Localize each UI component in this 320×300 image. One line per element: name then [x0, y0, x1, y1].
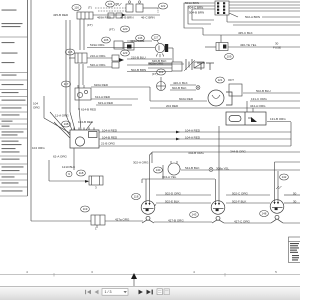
svg-text:117: 117 — [64, 82, 69, 86]
ref 117 — [61, 81, 70, 87]
svg-text:123: 123 — [123, 51, 128, 55]
svg-text:344-B ORG: 344-B ORG — [230, 149, 246, 153]
svg-text:112: 112 — [159, 70, 164, 74]
relay boxes small top — [126, 4, 133, 12]
ref 143 — [190, 212, 199, 218]
wire 435-C BLK — [203, 34, 300, 36]
wire 502-B BRN — [127, 71, 172, 73]
relay boxes mid — [114, 41, 123, 49]
svg-text:119: 119 — [83, 207, 88, 211]
ignition coil Q2 — [211, 201, 225, 223]
svg-text:62-A ORG: 62-A ORG — [53, 155, 68, 159]
svg-text:304-A YEL: 304-A YEL — [162, 175, 177, 179]
wire 344-B ORG — [152, 151, 300, 153]
svg-text:148: 148 — [262, 212, 267, 216]
svg-text:614-B RED: 614-B RED — [81, 108, 97, 112]
wire 104-A RED long — [99, 131, 291, 133]
svg-text:502-F BLK: 502-F BLK — [232, 199, 246, 203]
svg-text:427-C ORG: 427-C ORG — [234, 219, 251, 223]
wire 430 YEL — [228, 46, 300, 48]
ref 123 — [121, 50, 130, 56]
wire 614-A RED — [91, 98, 138, 100]
svg-text:30: 30 — [293, 199, 297, 203]
toolbar page textbox — [102, 289, 128, 296]
svg-text:109: 109 — [227, 55, 232, 59]
wire diagonals into key switch — [66, 115, 72, 130]
svg-text:344-A ORG: 344-A ORG — [250, 104, 266, 108]
wire 427a ORG — [105, 220, 143, 222]
svg-text:427-B ORG: 427-B ORG — [168, 218, 184, 222]
svg-text:502-E BLK: 502-E BLK — [165, 199, 180, 203]
blower motor B — [155, 43, 173, 62]
wire 210-B BLU — [127, 58, 172, 60]
ref 120 — [120, 26, 129, 32]
wire bus verticals upper left — [65, 20, 67, 115]
svg-text:21-B ORG: 21-B ORG — [101, 141, 116, 145]
legend text rows — [2, 10, 26, 192]
wire dashed accessory top — [95, 7, 126, 9]
svg-text:420-C BLK: 420-C BLK — [173, 81, 188, 85]
ref 118b — [77, 170, 86, 176]
svg-text:116: 116 — [74, 6, 79, 10]
svg-text:131-C ORG: 131-C ORG — [251, 97, 268, 101]
svg-text:104-A RED: 104-A RED — [185, 128, 201, 132]
toolbar first-page button — [85, 290, 91, 294]
svg-text:121: 121 — [218, 78, 223, 82]
wire 502-C ORG — [226, 194, 270, 196]
alternator exciter block 117 — [75, 85, 91, 100]
ref 148 — [260, 211, 269, 217]
svg-text:1210 BLK: 1210 BLK — [62, 165, 75, 169]
fusible link T1 — [197, 63, 205, 70]
wire 502-D ORG — [156, 194, 211, 196]
ref 140 — [154, 167, 163, 173]
svg-text:104-B RED: 104-B RED — [102, 135, 118, 139]
svg-text:118: 118 — [79, 171, 84, 175]
wire 502-E BLK — [156, 202, 211, 204]
svg-text:138: 138 — [64, 122, 69, 126]
svg-text:504-C BRN: 504-C BRN — [188, 6, 203, 10]
svg-text:502-D ORG: 502-D ORG — [165, 191, 182, 195]
svg-text:435-C BLK: 435-C BLK — [238, 31, 253, 35]
wire 426a ORG — [127, 40, 152, 42]
svg-text:501A BRN: 501A BRN — [185, 1, 199, 5]
svg-text:620A RED: 620A RED — [94, 83, 109, 87]
svg-text:602A RED: 602A RED — [179, 97, 194, 101]
wire 62-A ORG to breaker — [48, 160, 50, 181]
chassis mark top — [116, 3, 122, 6]
chassis mark near Q3 — [276, 186, 282, 189]
wire 302-A ORG drop — [162, 165, 164, 179]
svg-text:(FT): (FT) — [87, 23, 93, 27]
ref 116 — [72, 5, 81, 11]
svg-text:120: 120 — [123, 27, 128, 31]
svg-text:FUSE: FUSE — [273, 46, 281, 50]
ref 146 — [136, 35, 145, 41]
connector block 119 — [91, 215, 105, 228]
ref 127 — [152, 35, 161, 41]
svg-text:308a YEL: 308a YEL — [216, 166, 229, 170]
wire 620A RED — [91, 86, 150, 88]
wire coil1 feeds — [145, 179, 147, 203]
arrow splice — [119, 58, 124, 62]
svg-text:46-C BRN: 46-C BRN — [141, 15, 155, 19]
svg-text:131-B ORG: 131-B ORG — [270, 117, 286, 121]
wire battery leads — [148, 63, 184, 65]
wire coil3 feeds — [274, 162, 276, 202]
svg-text:502-B BRN: 502-B BRN — [131, 68, 146, 72]
svg-text:50: 50 — [293, 191, 297, 195]
ref 138 — [62, 121, 71, 127]
svg-text:(FT): (FT) — [109, 27, 115, 31]
svg-text:623-A RED: 623-A RED — [98, 101, 114, 105]
connector J1 pin block — [215, 1, 229, 15]
svg-text:520-A ORG: 520-A ORG — [90, 63, 106, 67]
ground G1 — [157, 77, 166, 91]
wire 544-B BLK / 308a YEL — [181, 169, 209, 171]
key switch — [70, 128, 99, 149]
harness nested loops to connector — [184, 3, 215, 28]
fusible link T2 — [206, 63, 214, 70]
wire 502-A BRN — [229, 13, 238, 17]
splice X 544 — [209, 168, 213, 172]
svg-text:104-A RED: 104-A RED — [185, 135, 201, 139]
arrow marks on long wires — [122, 14, 180, 141]
svg-text:143: 143 — [192, 213, 197, 217]
wire 427-B ORG — [154, 221, 212, 223]
svg-text:(T): (T) — [88, 6, 92, 10]
wire 427 feed from bus — [31, 220, 91, 222]
svg-text:ORG: ORG — [33, 105, 41, 109]
wire 519A ORG — [87, 47, 155, 49]
wire 427 right stub — [283, 222, 300, 224]
ref 122 — [158, 3, 167, 9]
wire 304-A YEL — [142, 178, 215, 180]
svg-text:430-YE YEL: 430-YE YEL — [240, 43, 257, 47]
wire 104-B RED long — [99, 138, 291, 140]
svg-text:504-B BRN: 504-B BRN — [189, 10, 204, 14]
svg-text:427a ORG: 427a ORG — [115, 217, 130, 221]
wire 435-B RED to fuse box E — [93, 14, 160, 16]
ref 118 — [132, 194, 141, 200]
svg-text:620-B BLK: 620-B BLK — [152, 59, 167, 63]
wire 502-F BLK — [226, 202, 270, 204]
legend column border — [0, 0, 28, 196]
relay K1 — [172, 62, 182, 71]
wire 420-C BLK — [170, 84, 196, 86]
wire coil2 feeds — [215, 179, 217, 203]
ref 115 — [65, 49, 74, 55]
wire 210-A ORG — [87, 57, 112, 59]
wire 602A RED — [150, 100, 207, 102]
wire 623-A RED — [96, 104, 132, 106]
wire 104 ORG long vertical bus — [30, 0, 32, 221]
svg-text:426a ORG: 426a ORG — [130, 39, 145, 43]
wire 602a ORG — [127, 64, 172, 66]
fuse block E top-left — [77, 12, 93, 19]
svg-text:OFT: OFT — [228, 78, 234, 82]
toolbar page icons — [157, 289, 169, 295]
splice X 602 — [196, 86, 200, 90]
svg-text:104-A RED: 104-A RED — [102, 128, 118, 132]
sender unit D-motor — [168, 161, 181, 175]
svg-text:344-B ORG: 344-B ORG — [188, 151, 204, 155]
ignition coil Q1 — [141, 201, 156, 223]
ref 112 — [157, 69, 166, 75]
svg-text:469A RED: 469A RED — [97, 15, 112, 19]
wire 131-B ORG — [267, 121, 291, 123]
starter motor M — [208, 90, 232, 106]
ref 121 — [216, 77, 225, 83]
svg-text:502-A BRN: 502-A BRN — [245, 15, 260, 19]
svg-text:104 ORG: 104 ORG — [32, 146, 45, 150]
wire 502-B BLU — [243, 92, 300, 94]
wire connector feeds right — [229, 1, 300, 3]
svg-text:118: 118 — [134, 195, 139, 199]
svg-text:(T): (T) — [115, 2, 119, 6]
wire 620-B BLK — [148, 62, 172, 64]
svg-text:614-A RED: 614-A RED — [95, 95, 111, 99]
pointer mark — [131, 273, 137, 279]
circuit breaker CHC box — [85, 176, 103, 185]
wire 602-B BLK — [170, 89, 196, 91]
ignition coil Q3 — [270, 200, 284, 223]
svg-text:115: 115 — [68, 50, 73, 54]
svg-text:302-A ORG: 302-A ORG — [133, 161, 149, 165]
wire key switch drop — [73, 148, 75, 170]
svg-text:105: 105 — [104, 38, 109, 42]
wire 520-A ORG — [87, 66, 112, 68]
svg-text:124: 124 — [108, 2, 113, 6]
wire 131-B ORG right drop — [290, 122, 292, 146]
svg-text:502-B BLU: 502-B BLU — [256, 89, 271, 93]
svg-text:1 / 3: 1 / 3 — [105, 290, 112, 294]
ref 124 — [106, 1, 115, 7]
wire 204 RED / 344-A ORG — [150, 107, 300, 109]
toolbar next button — [139, 290, 143, 295]
relay AL — [216, 35, 228, 51]
ref 142 — [280, 174, 289, 180]
toolbar last-page button — [147, 290, 153, 295]
instrument cluster bar — [226, 112, 266, 125]
svg-text:502-C ORG: 502-C ORG — [232, 191, 249, 195]
ref 105 — [102, 37, 111, 43]
wire 131-C ORG — [250, 100, 300, 102]
svg-text:204 RED: 204 RED — [166, 104, 179, 108]
wire 21-B ORG long — [99, 145, 291, 147]
ruler line — [0, 274, 300, 276]
svg-text:210-B BLU: 210-B BLU — [131, 56, 146, 60]
svg-text:142: 142 — [282, 175, 287, 179]
ref 119 — [81, 206, 90, 212]
svg-text:210-A ORG: 210-A ORG — [90, 54, 106, 58]
svg-text:602-B BLK: 602-B BLK — [172, 86, 187, 90]
battery BAT — [184, 59, 195, 71]
svg-text:127: 127 — [154, 36, 159, 40]
fuse F2 hatched — [194, 62, 204, 68]
svg-text:519A ORG: 519A ORG — [90, 43, 105, 47]
svg-text:104-B RED: 104-B RED — [78, 120, 94, 124]
svg-text:(FT): (FT) — [152, 72, 158, 76]
svg-text:544-B BLK: 544-B BLK — [185, 166, 200, 170]
toolbar prev button — [95, 290, 99, 294]
sender block 131 — [229, 84, 242, 96]
wire 614-B RED stub — [78, 108, 80, 110]
wire right coil stubs — [284, 194, 300, 196]
wire pair below connector — [226, 15, 228, 22]
switch block 115 — [69, 53, 87, 63]
ref 9 — [66, 171, 72, 177]
wire 427-C ORG — [224, 222, 271, 224]
ref 109 — [225, 54, 234, 60]
svg-text:122: 122 — [161, 4, 166, 8]
svg-text:435-B RED: 435-B RED — [53, 13, 69, 17]
connector pair 119/123 — [112, 55, 119, 61]
svg-text:140: 140 — [156, 168, 161, 172]
svg-text:11-A ORG: 11-A ORG — [55, 114, 69, 118]
